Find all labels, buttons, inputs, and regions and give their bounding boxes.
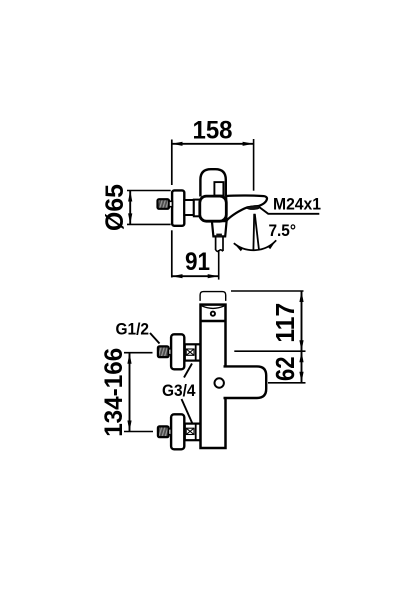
dimension 62 text (rotated) — [270, 356, 300, 381]
swivel tilted line — [255, 214, 259, 249]
column cap arc — [202, 306, 224, 309]
bottom inlet escutcheon (front view) — [171, 414, 184, 449]
svg-text:G1/2: G1/2 — [116, 320, 150, 339]
column cap bottom line — [201, 320, 225, 322]
bottom connector divider — [195, 424, 197, 441]
svg-text:M24x1: M24x1 — [273, 194, 321, 213]
handle grip (side view) — [200, 169, 225, 196]
top connector divider — [195, 344, 197, 360]
aerator (dark lens on spout underside) — [247, 206, 260, 210]
nut stem — [169, 201, 172, 206]
shower outlet trapezoid below body — [212, 221, 227, 236]
117 top extension line — [231, 290, 304, 292]
dimension 158 left arrow — [172, 142, 183, 146]
svg-text:134-166: 134-166 — [100, 348, 128, 437]
top nut stem — [169, 349, 172, 355]
screw hole circle on column — [215, 378, 224, 387]
Ø65 bottom extension line — [127, 223, 171, 225]
dimension 158 right arrow — [243, 142, 254, 146]
spout bar (front view) — [224, 366, 267, 398]
connecting pipe — [184, 200, 194, 215]
Ø65 top extension line — [127, 190, 171, 192]
wall centerline upper segment — [171, 140, 173, 186]
inlet hex nut (side view, hatched) — [158, 199, 170, 209]
hose left line — [215, 238, 217, 251]
svg-text:91: 91 — [185, 248, 210, 276]
extension line right of 158 (spout end) — [253, 139, 255, 191]
G3/4 lower leader line — [182, 399, 193, 423]
svg-text:158: 158 — [193, 117, 233, 145]
134-166 top extension line — [124, 352, 153, 354]
top connector housing — [185, 344, 201, 360]
dimension Ø65 line — [129, 191, 131, 225]
top connector X-box — [186, 349, 194, 355]
G3/4 upper leader line — [184, 364, 192, 378]
117/62 dimension line — [301, 291, 303, 383]
117 top arrow — [299, 291, 303, 302]
dimension Ø65 text (rotated) — [101, 184, 129, 231]
bottom connector X-box — [186, 428, 194, 434]
mixer body (side view) — [200, 196, 227, 221]
svg-text:62: 62 — [270, 356, 300, 381]
column cap dot — [211, 312, 215, 316]
62 bottom arrow — [299, 372, 303, 383]
thin holder bracket on column top — [200, 292, 226, 301]
134-166 dimension line — [129, 353, 131, 432]
G1/2 leader line — [150, 333, 160, 344]
117 bottom arrow — [299, 340, 303, 351]
svg-text:G3/4: G3/4 — [162, 381, 196, 400]
hose nut (dark) — [216, 234, 222, 237]
62 bottom extension line — [268, 382, 306, 384]
134-166 bottom arrow — [127, 421, 131, 432]
Ø65 bottom arrow — [128, 213, 132, 224]
pipe collar — [194, 200, 200, 217]
wall escutcheon (side view) — [172, 190, 184, 225]
svg-text:117: 117 — [270, 303, 300, 343]
bottom connector housing — [185, 424, 201, 441]
top inlet hex nut (hatched) — [158, 346, 169, 357]
Ø65 top arrow — [128, 191, 132, 202]
dimension 117 text (rotated) — [270, 303, 300, 343]
spout (side view) — [226, 196, 267, 221]
hose right line — [222, 238, 224, 252]
faucet column (front view) — [201, 305, 226, 448]
top inlet escutcheon (front view) — [171, 334, 184, 369]
wall centerline lower segment — [171, 230, 173, 277]
svg-text:Ø65: Ø65 — [101, 184, 129, 231]
extension line right of 91 (hose axis) — [218, 250, 220, 280]
swivel arc — [234, 240, 276, 250]
dimension 91 line — [172, 275, 219, 277]
hose break wave — [216, 250, 223, 252]
dimension 91 right arrow — [208, 274, 219, 278]
bottom inlet hex nut (hatched) — [158, 426, 169, 437]
dimension 134-166 text (rotated) — [100, 348, 128, 437]
dimension 158 line — [172, 143, 254, 145]
shared middle extension line — [234, 350, 305, 352]
swivel arc left arrowhead — [234, 243, 243, 251]
62 top arrow — [299, 351, 303, 362]
swivel arc right arrowhead — [268, 240, 277, 249]
bottom nut stem — [169, 429, 172, 435]
leader line to aerator — [259, 207, 320, 214]
swivel reference line (vertical) — [252, 214, 255, 250]
handle stem notch — [214, 182, 223, 196]
dimension 91 left arrow — [172, 274, 183, 278]
134-166 bottom extension line — [124, 431, 153, 433]
134-166 top arrow — [127, 353, 131, 364]
svg-text:7.5°: 7.5° — [269, 221, 297, 240]
